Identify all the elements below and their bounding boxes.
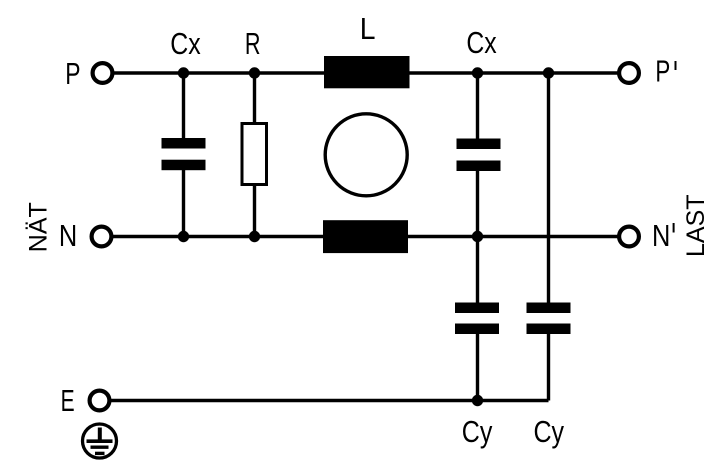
wire Cx1 lower lead	[182, 169, 185, 237]
wire Cy1 lower lead to E rail	[476, 332, 479, 401]
junction dot E rail / Cy1	[472, 395, 483, 406]
terminal N'	[619, 227, 639, 247]
svg-text:R: R	[245, 26, 261, 61]
inductor L winding bottom (black bar)	[323, 220, 408, 253]
junction dot top rail / Cx1	[178, 67, 189, 78]
svg-text:Cx: Cx	[170, 26, 200, 60]
svg-text:LAST: LAST	[682, 194, 710, 257]
junction dot top rail / R	[249, 67, 260, 78]
terminal P'	[619, 63, 639, 83]
svg-text:E: E	[61, 383, 75, 418]
junction dot N rail / Cx2-Cy1	[472, 231, 483, 242]
inductor L winding top (black bar)	[324, 56, 410, 88]
capacitor Cx1 plates	[162, 138, 206, 149]
wire Cx2 upper lead	[476, 73, 479, 140]
svg-text:P: P	[65, 56, 80, 91]
ground protective earth symbol	[83, 424, 117, 458]
capacitor Cx2 plates	[457, 139, 501, 150]
terminal P	[93, 63, 113, 83]
svg-text:N: N	[652, 219, 670, 254]
svg-text:Cy: Cy	[534, 414, 565, 448]
inductor L core circle	[325, 114, 407, 196]
wire Cy1 upper lead	[476, 237, 479, 305]
wire E rail	[110, 399, 549, 402]
svg-text:Cy: Cy	[462, 414, 493, 448]
wire R upper lead	[253, 73, 256, 124]
svg-text:L: L	[360, 12, 376, 46]
junction dot top rail / Cx2	[472, 67, 483, 78]
capacitor Cy1 plates	[455, 303, 499, 314]
wire branch x=548.5 from top rail to Cy2	[547, 73, 550, 304]
wire N rail N to N'	[112, 235, 618, 238]
terminal E	[90, 391, 110, 411]
junction dot top rail / branch	[543, 67, 554, 78]
wire R lower lead	[253, 184, 256, 237]
wire Cy2 lower lead to E rail	[547, 332, 550, 401]
wire Cx1 upper lead	[182, 73, 185, 140]
terminal N	[92, 227, 112, 247]
junction dot N rail / R	[249, 231, 260, 242]
capacitor Cy2 plates	[527, 303, 571, 314]
svg-text:Cx: Cx	[466, 25, 496, 59]
wire Cx2 lower lead to N rail	[476, 169, 479, 237]
junction dot N rail / Cx1	[178, 231, 189, 242]
svg-text:N: N	[59, 219, 77, 254]
resistor R body	[242, 124, 267, 185]
svg-text:P: P	[655, 54, 670, 88]
wire top rail P to P'	[113, 71, 618, 74]
svg-text:NÄT: NÄT	[24, 202, 52, 252]
